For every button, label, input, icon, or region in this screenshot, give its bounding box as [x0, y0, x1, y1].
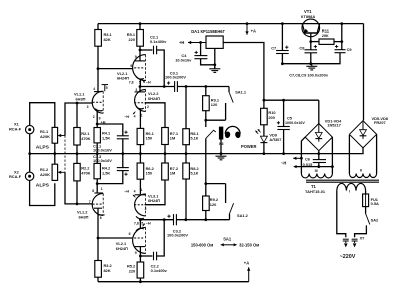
node: shield-ground junction — [28, 152, 31, 155]
node — [282, 99, 285, 102]
node: R1.1 ground junction — [53, 152, 56, 155]
svg-text:~Н: ~Н — [281, 161, 286, 166]
node: cathode/C1.3 tap — [96, 182, 99, 185]
resistor R8.1 5,1K — [183, 129, 200, 145]
capacitor C4 10.0x16v — [175, 43, 207, 63]
svg-text:~220V: ~220V — [340, 254, 356, 260]
svg-text:−Н: −Н — [124, 189, 129, 193]
wire: R1.1 wiper to VL1.1 grid — [65, 103, 92, 136]
wire: VL1.2 anode lead — [97, 209, 99, 238]
wire: LED to ground rail — [263, 143, 265, 154]
fuse FU1 0.5A — [363, 194, 379, 207]
resistor R4.2 1.5K — [94, 163, 111, 178]
node — [121, 152, 124, 155]
wire: top +A rail — [98, 23, 364, 25]
wire: DA1 ground pin — [214, 48, 216, 68]
node — [213, 63, 216, 66]
svg-text:2: 2 — [93, 115, 95, 119]
capacitor C1.1 100.0x16V — [93, 131, 129, 153]
wire: R2.1 top lead — [76, 103, 78, 128]
svg-text:6Н24П: 6Н24П — [148, 198, 160, 203]
wire: fuse to SA2 — [365, 207, 367, 214]
svg-text:FR207: FR207 — [374, 120, 386, 125]
resistor R2.1 470K — [74, 128, 91, 146]
svg-text:1: 1 — [101, 187, 103, 191]
switch SA1.2 — [206, 184, 249, 220]
resistor R6.2 150 — [137, 163, 155, 179]
regulator DA1 KR1158EN6G — [191, 29, 225, 48]
svg-text:C8: C8 — [299, 46, 305, 51]
svg-text:3: 3 — [135, 88, 137, 92]
resistor R9.1 120 — [203, 96, 220, 111]
svg-text:200: 200 — [268, 115, 275, 120]
wire: R2.1 bottom lead — [76, 145, 78, 154]
svg-text:82K: 82K — [104, 37, 111, 42]
wire: VL2.2 grid to R7.1 — [145, 103, 165, 128]
label SA1 selector — [191, 237, 259, 248]
svg-text:7,8: 7,8 — [134, 221, 139, 225]
wire: R9.1 top lead — [205, 87, 207, 96]
svg-text:5,1К: 5,1К — [190, 136, 198, 141]
wire: R1.2 wiper to VL1.2 grid — [65, 172, 92, 204]
svg-text:1,5K: 1,5K — [102, 170, 110, 175]
ground symbol at jack — [220, 154, 222, 157]
node: cathode/C1.1 tap — [96, 123, 99, 126]
wire: ch1 output wire — [140, 86, 174, 88]
node — [204, 85, 207, 88]
wire: R9.2 top lead — [205, 184, 207, 196]
wire: R2.2 bottom lead — [76, 181, 78, 204]
resistor R6.1 150 — [137, 128, 155, 144]
wire: bridge1 AC right — [331, 137, 333, 173]
svg-text:2: 2 — [145, 207, 147, 211]
resistor R5.2 220 — [127, 262, 144, 278]
capacitor C9 — [335, 42, 353, 53]
wire: R4.2 top to ground — [96, 154, 98, 164]
wire: bridge1 - to ground rail — [318, 151, 320, 154]
wire: node to C2.2 — [140, 255, 152, 257]
node — [96, 152, 99, 155]
capacitor C3.1 100.0x200V — [165, 70, 186, 92]
heater AC tap lower — [293, 165, 334, 168]
wire: R10 to LED — [263, 125, 265, 136]
node: R5.2/C2.2/VL3.2 anode — [139, 255, 142, 258]
wire: winding I left to XT — [337, 191, 346, 238]
svg-text:220: 220 — [129, 268, 136, 273]
svg-text:−Н: −Н — [124, 115, 129, 119]
svg-text:82K: 82K — [104, 268, 111, 273]
wire: VL1.1 anode lead — [97, 69, 99, 92]
wire: X2 hot loop to R1.2 bottom — [30, 181, 55, 206]
wire: VL2.1 anode lead — [139, 50, 141, 61]
node — [317, 152, 320, 155]
wire: jack chain down to R9.2 node — [205, 138, 207, 183]
node — [220, 152, 223, 155]
resistor R10 200 — [261, 108, 276, 125]
wire: R9.1 bottom lead — [205, 111, 207, 121]
svg-text:2: 2 — [147, 105, 149, 109]
node / +A arrow top — [246, 22, 249, 25]
triode VL2.1 6N24P — [117, 55, 151, 87]
capacitor C2.1 0.1x400v — [150, 35, 167, 55]
+H arrow output — [179, 40, 206, 45]
svg-text:9: 9 — [135, 55, 137, 59]
node — [309, 62, 312, 65]
svg-text:SA1.2: SA1.2 — [237, 213, 249, 218]
wire: X1 hot to R1.1 top — [30, 103, 55, 128]
svg-text:1: 1 — [141, 188, 143, 192]
svg-text:+Н: +Н — [179, 40, 184, 45]
svg-text:+A: +A — [251, 29, 256, 34]
svg-text:8: 8 — [92, 189, 94, 193]
svg-text:ТАНТ15-01: ТАНТ15-01 — [305, 189, 326, 194]
svg-text:6: 6 — [130, 64, 132, 68]
connector XT — [343, 236, 365, 247]
wire: R5.2 leads — [139, 256, 141, 262]
capacitor C8 — [299, 42, 317, 53]
wire: bridge2 - to ground rail — [362, 148, 364, 154]
svg-text:III: III — [315, 169, 318, 173]
svg-text:6Н3П: 6Н3П — [76, 96, 86, 101]
svg-text:SA1.1: SA1.1 — [235, 90, 247, 95]
svg-text:4: 4 — [134, 190, 136, 194]
wire: C2.1 to output node — [157, 50, 165, 87]
svg-text:SA2: SA2 — [371, 217, 379, 222]
svg-text:10.0x16v: 10.0x16v — [175, 57, 192, 62]
svg-text:4: 4 — [93, 87, 95, 91]
svg-text:470K: 470K — [81, 170, 90, 175]
svg-text:32-150 Ом: 32-150 Ом — [239, 243, 259, 248]
svg-text:100.0x200V: 100.0x200V — [167, 233, 188, 238]
svg-text:1М: 1М — [170, 171, 175, 176]
node — [184, 218, 187, 221]
wire: R3.1 bottom to VL1.1 anode node — [97, 46, 99, 68]
wire: R2.2 top lead — [76, 154, 78, 164]
svg-text:20К: 20К — [322, 33, 329, 38]
svg-text:4: 4 — [134, 115, 136, 119]
wire: R7.2 top lead — [164, 154, 166, 163]
T1 core — [306, 179, 379, 181]
svg-text:−Н: −Н — [146, 80, 151, 84]
node — [309, 40, 312, 43]
svg-text:120: 120 — [210, 202, 217, 207]
node: VL1.2 anode / VL3.2 grid — [97, 237, 100, 240]
node — [340, 40, 343, 43]
wire: ch2 grid wire — [98, 237, 133, 239]
svg-text:0.1x400v: 0.1x400v — [150, 39, 167, 44]
svg-text:ALPS: ALPS — [36, 145, 50, 151]
node — [185, 152, 188, 155]
T1 winding II — [349, 174, 376, 178]
wire: C7 bottom — [281, 54, 283, 64]
svg-text:A20K: A20K — [40, 134, 50, 139]
wire: R3.2 bottom lead — [97, 277, 99, 282]
svg-text:C9: C9 — [347, 47, 353, 52]
resistor R7.1 1M — [162, 128, 179, 145]
wire: C8 bottom — [310, 53, 312, 64]
wire: cathode to C1.1 — [97, 124, 123, 136]
capacitor C1.3 100.0x16V — [93, 154, 129, 176]
wire: R6.1 bottom to ground — [139, 145, 141, 154]
potentiometer R1.2 A20K ALPS — [36, 164, 58, 188]
svg-text:1000.0x16V: 1000.0x16V — [285, 121, 305, 125]
wire: bridge2 AC left to winding II — [348, 135, 350, 174]
node — [263, 152, 266, 155]
+A arrow bottom — [248, 267, 250, 281]
wire: R7.2 bottom to VL3.1 grid — [145, 180, 165, 205]
triode VL1.1 6N3P — [74, 85, 108, 128]
switch SA1.1 — [206, 87, 247, 121]
svg-text:5: 5 — [141, 221, 143, 225]
svg-text:1,5K: 1,5K — [102, 135, 110, 140]
node: VL1.1 anode / VL2.1 grid — [97, 67, 100, 70]
node — [139, 152, 142, 155]
node — [139, 22, 142, 25]
svg-text:220: 220 — [129, 37, 136, 42]
resistor R3.2 82K — [95, 261, 113, 278]
svg-text:150: 150 — [146, 136, 153, 141]
node — [204, 218, 207, 221]
svg-text:470K: 470K — [81, 136, 90, 141]
triode VL1.2 6N3P — [77, 179, 105, 220]
wire: R1.1 bottom to ground rail — [54, 143, 56, 153]
wire: bridge1 + to rail — [318, 100, 320, 123]
node: SRPP midpoint — [139, 85, 142, 88]
svg-text:C5: C5 — [287, 116, 293, 121]
svg-text:II: II — [360, 168, 362, 172]
wire: R6.2 top lead — [139, 154, 141, 163]
wire: C9 bottom / ground bus — [282, 53, 340, 64]
svg-text:6Н24П: 6Н24П — [116, 246, 128, 251]
node — [76, 203, 79, 206]
svg-text:C7,C8,C9 100.0x200v: C7,C8,C9 100.0x200v — [289, 72, 329, 77]
wire: gang link dashed — [64, 136, 66, 173]
svg-text:1N5217: 1N5217 — [327, 123, 341, 128]
svg-text:+A: +A — [244, 260, 249, 265]
wire: cathode to C1.3 — [97, 171, 123, 184]
ground symbol PSU — [311, 64, 313, 67]
jack X3 body — [219, 127, 225, 147]
svg-text:POWER: POWER — [241, 144, 257, 149]
node — [139, 280, 142, 283]
resistor R7.2 1M — [162, 163, 179, 180]
wire: rail 100 — [264, 99, 319, 101]
wire: C1.3 top to ground — [122, 154, 124, 168]
wire: R5.1 bottom to anode node — [139, 46, 141, 50]
svg-text:DA1 КР1158ЕН6Г: DA1 КР1158ЕН6Г — [191, 29, 225, 34]
svg-text:АЛ307: АЛ307 — [269, 137, 281, 142]
svg-text:150: 150 — [146, 171, 153, 176]
svg-text:100.0x16V: 100.0x16V — [93, 148, 112, 153]
svg-text:0.1x400v: 0.1x400v — [151, 268, 168, 273]
svg-text:RCA-F: RCA-F — [9, 174, 22, 179]
node — [199, 41, 202, 44]
svg-text:SA1: SA1 — [223, 237, 232, 242]
svg-text:150-600 Ом: 150-600 Ом — [191, 243, 213, 248]
wiper R1.2 — [58, 171, 65, 174]
headphones icon — [224, 126, 241, 138]
node — [204, 182, 207, 185]
node — [282, 152, 285, 155]
wire: R6.2 bottom to VL3.1 anode — [139, 179, 141, 194]
wire: R4.1 bottom to ground — [96, 143, 98, 154]
switch SA2 — [366, 214, 379, 228]
svg-text:100.0x200V: 100.0x200V — [165, 75, 186, 80]
node: R5.1/C2.1/VL2.1 anode — [139, 49, 142, 52]
wire: C5 bottom to ground — [283, 130, 285, 154]
svg-text:6: 6 — [100, 216, 102, 220]
svg-text:КТ898А: КТ898А — [301, 14, 315, 19]
wire: R9.2 bottom lead — [205, 211, 207, 220]
jack tip contact — [206, 130, 216, 138]
node — [281, 22, 284, 25]
heater AC tap upper — [293, 157, 303, 160]
svg-text:A20K: A20K — [40, 172, 50, 177]
T1 winding I — [337, 183, 366, 190]
wire: base to R11 — [311, 41, 319, 43]
wire: R10 top lead — [263, 100, 265, 108]
triode VL3.1 6N24P — [124, 188, 160, 220]
ground symbol DA1 — [214, 66, 216, 69]
transistor VT1 KT898A — [301, 9, 320, 41]
svg-text:6Н24П: 6Н24П — [117, 76, 129, 81]
wire: R9.1 node down to jack contact — [205, 120, 207, 127]
svg-text:0.5A: 0.5A — [371, 201, 379, 206]
node — [340, 22, 343, 25]
capacitor C3.2 100.0x200V — [167, 214, 188, 238]
svg-text:6Н24П: 6Н24П — [148, 96, 160, 101]
wire: R3.1 top lead — [97, 24, 99, 30]
svg-text:100.0x16V: 100.0x16V — [93, 158, 112, 163]
svg-text:C7: C7 — [271, 46, 276, 51]
wire: R5.1 top lead — [139, 24, 141, 30]
wire: R1.2 top to ground rail — [54, 154, 56, 165]
wire: C3.1 to R9.1 area — [177, 86, 229, 88]
node — [76, 102, 79, 105]
connector X1 RCA-F — [9, 122, 34, 134]
svg-text:7: 7 — [89, 200, 91, 204]
capacitor C6 0.015 — [303, 154, 326, 168]
svg-text:XT: XT — [360, 236, 365, 240]
node — [76, 152, 79, 155]
wire: C2.2 to output node — [157, 220, 165, 256]
wire: R8.1 bottom to ground — [185, 145, 187, 154]
svg-text:0.015: 0.015 — [303, 162, 314, 167]
wire: C3.2 to R9.2 area — [176, 219, 229, 221]
wire: jack sleeve to ground — [220, 140, 222, 154]
node — [164, 152, 167, 155]
node: ch2 SRPP midpoint — [139, 218, 142, 221]
wire: R11 right to rail — [334, 24, 342, 42]
node — [163, 85, 166, 88]
svg-text:ALPS: ALPS — [36, 183, 50, 189]
resistor R9.2 120 — [203, 196, 219, 211]
triode VL3.2 6N24P — [116, 220, 151, 256]
svg-text:120: 120 — [211, 102, 218, 107]
wire: winding I right to fuse — [365, 191, 367, 194]
connector X2 RCA-F — [9, 169, 34, 180]
svg-text:1М: 1М — [170, 136, 175, 141]
wire: raw rail down to bridge2 — [363, 24, 365, 121]
svg-text:RCA-F: RCA-F — [9, 126, 22, 131]
capacitor C7 100.0x200v — [271, 24, 289, 54]
wire: X1/X2 shield to ground — [29, 134, 31, 172]
svg-text:5: 5 — [139, 81, 141, 85]
wire: mid ground rail — [30, 153, 363, 155]
svg-text:9: 9 — [135, 251, 137, 255]
potentiometer R1.1 A20K ALPS — [36, 127, 58, 150]
wire: ch1 grid wire — [98, 68, 133, 70]
wire: R8.2 top lead — [185, 154, 187, 163]
capacitor C2.2 0.1x400v — [151, 252, 168, 273]
svg-text:−Н: −Н — [146, 222, 151, 226]
node — [204, 119, 207, 122]
resistor R3.1 82K — [95, 30, 113, 47]
resistor R5.1 220 — [127, 30, 144, 47]
resistor R8.2 5,1K — [183, 163, 200, 179]
svg-text:7,8: 7,8 — [129, 80, 134, 84]
triode VL2.2 6N24P — [124, 87, 160, 129]
wire: ch2 output wire — [140, 219, 173, 221]
svg-text:5: 5 — [106, 86, 108, 90]
svg-text:1: 1 — [141, 114, 143, 118]
node — [163, 218, 166, 221]
wire: node to C2.1 — [140, 49, 152, 51]
T1 winding III — [301, 174, 332, 178]
wire: R8.1 top lead — [185, 87, 187, 129]
wire: C1.1 bottom to ground — [122, 139, 124, 154]
wire: R8.2 bottom to output — [185, 179, 187, 220]
svg-text:C6: C6 — [305, 156, 311, 161]
resistor R2.2 470K — [74, 163, 91, 181]
wire: DA1 input from raw supply — [223, 43, 264, 101]
wire: R3.2 top to VL1.2 anode node — [97, 238, 99, 261]
resistor R11 20K — [319, 28, 334, 44]
resistor R4.1 1.5K — [94, 128, 111, 143]
wire: bottom +A rail — [98, 281, 249, 283]
wire: bridge1 AC left — [301, 137, 305, 173]
svg-text:5,1К: 5,1К — [190, 171, 198, 176]
node — [281, 62, 284, 65]
node — [185, 85, 188, 88]
node — [263, 99, 266, 102]
svg-text:6: 6 — [129, 232, 131, 236]
bridge rectifier VD5-VD8 FR207 — [349, 116, 388, 148]
capacitor C5 1000.0x16V — [277, 100, 306, 129]
wire: R7.1 bottom to ground — [164, 145, 166, 154]
bridge rectifier VD1-VD4 1N5217 — [305, 119, 342, 151]
svg-text:3: 3 — [87, 105, 89, 109]
svg-text:I: I — [349, 189, 350, 193]
svg-text:6Н3П: 6Н3П — [79, 214, 89, 219]
wire: C4 bottom to DA1 gnd — [201, 59, 215, 65]
wire: bridge2 AC right to winding II — [376, 135, 378, 174]
wire: SA2 to XT — [355, 228, 367, 238]
LED VD9 AL307 — [241, 129, 281, 149]
wiper R1.1 — [58, 134, 65, 137]
